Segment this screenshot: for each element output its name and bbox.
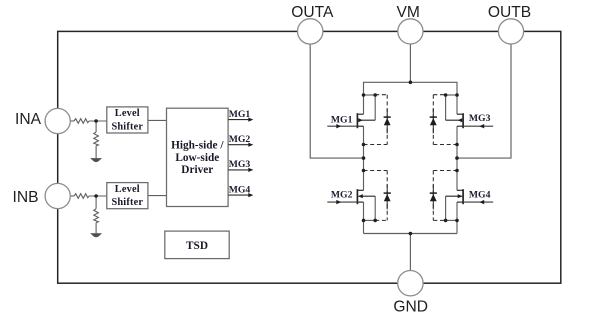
driver output MG1 arrow xyxy=(228,109,253,122)
body diode D2 xyxy=(384,193,391,201)
wire to ground INB xyxy=(95,223,97,234)
svg-text:GND: GND xyxy=(393,299,428,316)
pin pad GND xyxy=(398,271,423,296)
wire bridge left column xyxy=(363,95,365,234)
transistor MG2 xyxy=(357,189,375,204)
wire to ground INA xyxy=(95,146,97,159)
pin pad VM xyxy=(398,19,423,44)
pin pad INA xyxy=(45,108,70,133)
svg-text:Shifter: Shifter xyxy=(111,121,143,132)
svg-text:MG1: MG1 xyxy=(229,109,251,120)
driver U1 box xyxy=(167,108,229,206)
wire INB pulldown xyxy=(95,196,97,209)
transistor MG1 xyxy=(357,113,375,128)
svg-text:MG1: MG1 xyxy=(331,114,353,125)
body diode D3 xyxy=(430,117,437,125)
package outline MG2 (dashed) xyxy=(364,171,388,221)
svg-text:TSD: TSD xyxy=(186,240,208,252)
package outline MG4 (dashed) xyxy=(433,171,457,221)
driver output MG2 arrow xyxy=(228,134,253,147)
svg-text:OUTB: OUTB xyxy=(488,4,531,21)
resistor R-INA series xyxy=(74,119,89,124)
svg-text:Driver: Driver xyxy=(181,164,213,176)
driver output MG3 arrow xyxy=(228,159,253,172)
svg-text:MG3: MG3 xyxy=(229,159,251,170)
wire INA pulldown xyxy=(95,121,97,132)
IC outer border xyxy=(58,31,561,283)
wire INA row to level shifter xyxy=(70,120,107,122)
wire MG4 source node row xyxy=(446,219,457,221)
wire MG3 body tie xyxy=(445,95,447,120)
wire GND drop xyxy=(409,234,411,271)
wire INB row to level shifter xyxy=(70,195,107,197)
wire GND bottom rail xyxy=(364,233,458,235)
svg-text:INA: INA xyxy=(15,111,42,128)
wire MG1 drain node row xyxy=(364,94,376,96)
svg-text:MG2: MG2 xyxy=(331,190,353,201)
wire VM top rail xyxy=(364,82,458,95)
wire OUTB drop to bridge right mid node xyxy=(457,44,511,158)
svg-text:Level: Level xyxy=(115,108,140,119)
level shifter B box xyxy=(107,183,148,209)
transistor MG4 xyxy=(446,189,464,204)
level shifter A box xyxy=(107,107,148,133)
resistor R-INB pulldown xyxy=(94,209,99,223)
svg-text:VM: VM xyxy=(397,4,420,21)
wire VM drop xyxy=(409,44,411,82)
svg-text:MG4: MG4 xyxy=(229,184,251,195)
wire MG3 drain node row xyxy=(446,94,457,96)
wire OUTA drop to bridge left mid node xyxy=(310,44,363,158)
body diode D1 xyxy=(384,117,391,125)
gate input line MG4 xyxy=(463,190,493,205)
pin pad OUTA xyxy=(298,19,323,44)
svg-text:Low-side: Low-side xyxy=(175,152,219,164)
ground symbol INB xyxy=(90,233,102,237)
wire MG2 body tie xyxy=(374,196,376,220)
svg-text:Level: Level xyxy=(115,184,140,195)
pin pad OUTB xyxy=(498,19,523,44)
svg-text:High-side /: High-side / xyxy=(171,140,224,152)
junction dots bridge xyxy=(362,81,459,236)
transistor MG3 xyxy=(446,113,464,128)
gate input line MG1 xyxy=(327,114,357,128)
wire MG4 body tie xyxy=(445,196,447,220)
wire level shifter B to driver xyxy=(148,195,167,197)
gate input line MG3 xyxy=(463,113,493,128)
wire level shifter A to driver xyxy=(148,119,167,121)
svg-text:OUTA: OUTA xyxy=(291,4,334,21)
wire MG1 body tie xyxy=(374,95,376,120)
node junction INB xyxy=(94,194,98,198)
node junction INA xyxy=(94,119,98,123)
resistor R-INB series xyxy=(74,194,89,199)
body diode D4 xyxy=(430,193,437,201)
resistor R-INA pulldown xyxy=(94,132,99,146)
svg-text:MG4: MG4 xyxy=(469,190,491,201)
pin pad INB xyxy=(45,183,70,208)
gate input line MG2 xyxy=(327,190,357,205)
svg-text:Shifter: Shifter xyxy=(111,197,143,208)
svg-text:MG2: MG2 xyxy=(229,134,251,145)
ground symbol INA xyxy=(90,158,102,162)
svg-text:INB: INB xyxy=(13,189,39,206)
package outline MG1 (dashed) xyxy=(364,95,388,145)
package outline MG3 (dashed) xyxy=(433,95,457,145)
svg-text:MG3: MG3 xyxy=(469,113,491,124)
TSD box xyxy=(165,231,229,259)
wire bridge right column xyxy=(456,95,458,234)
driver output MG4 arrow xyxy=(228,184,253,197)
wire MG2 source node row xyxy=(364,219,376,221)
